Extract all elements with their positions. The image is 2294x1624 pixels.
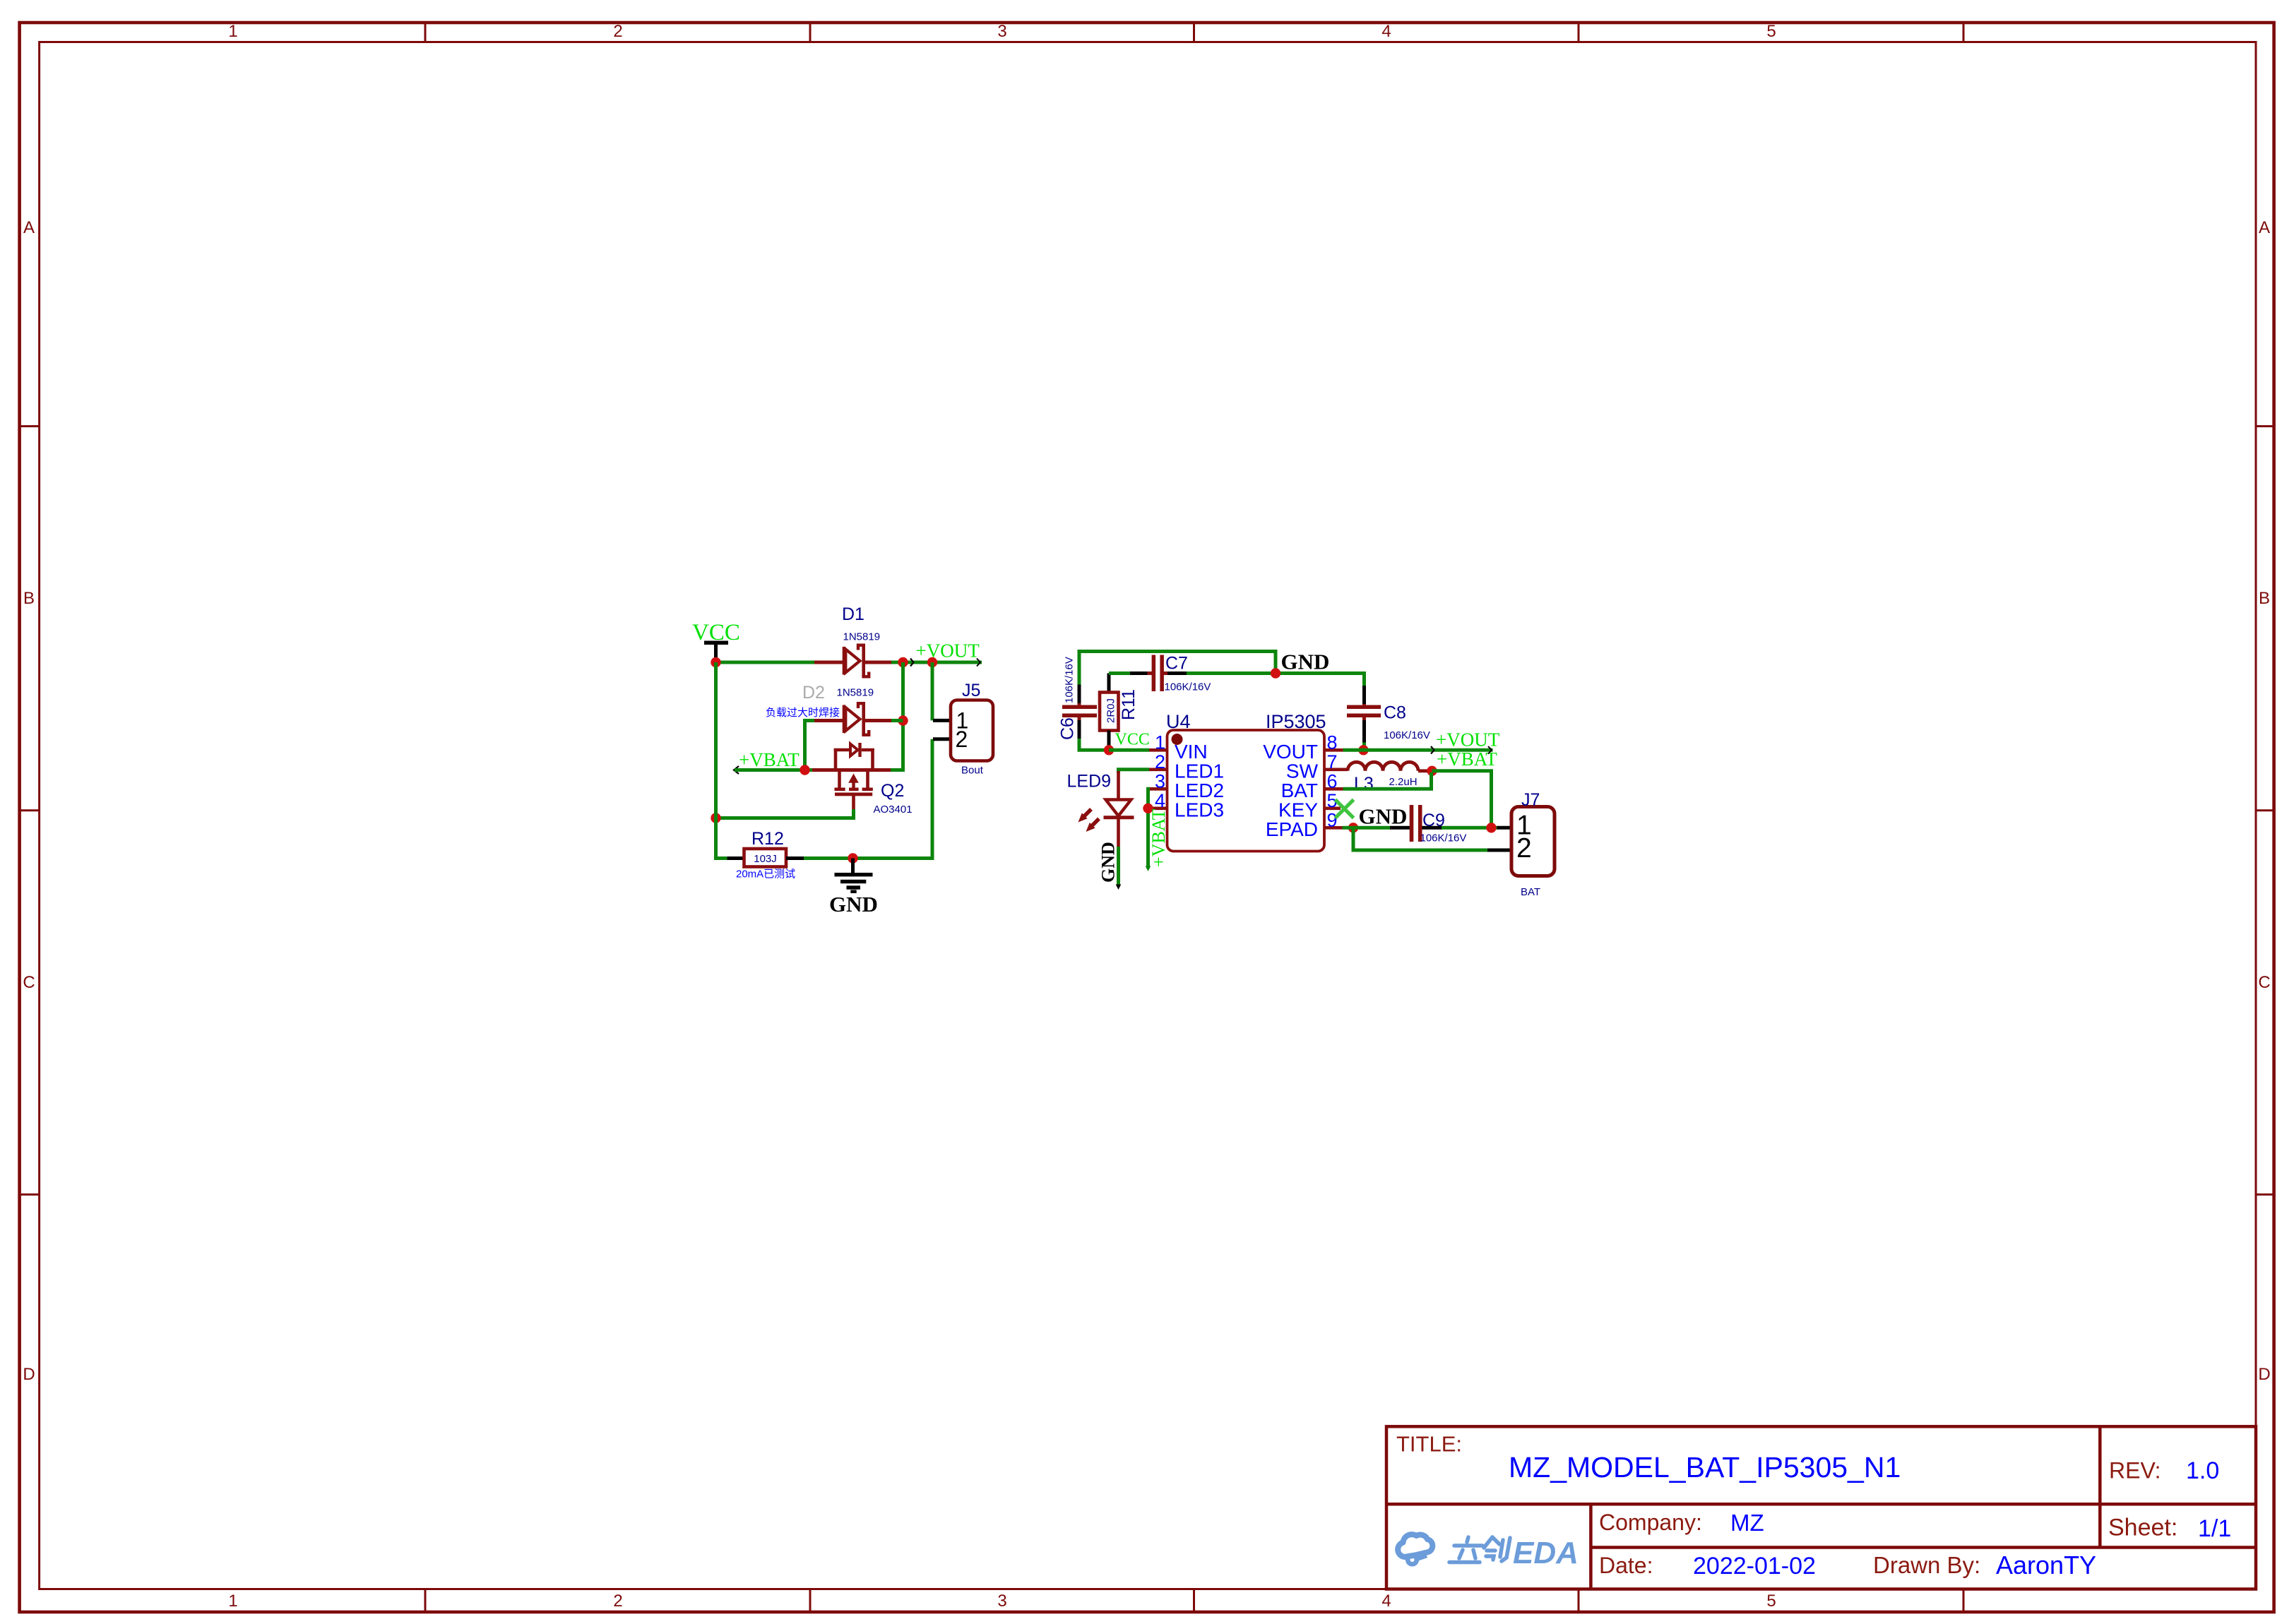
wire C8 bottom lead black <box>1362 720 1366 743</box>
svg-text:U4: U4 <box>1166 711 1191 732</box>
svg-text:MZ: MZ <box>1730 1510 1764 1536</box>
wire C9 left lead black <box>1390 826 1410 830</box>
wire C9 to J7 junction green <box>1442 826 1497 830</box>
ground GND flag (LED9, rotated) <box>1098 842 1122 890</box>
svg-text:IP5305: IP5305 <box>1266 711 1326 732</box>
SCHEMATIC LEFT <box>692 604 993 917</box>
svg-text:5: 5 <box>1766 1592 1776 1611</box>
wire EPAD down to J7 pin2 <box>1353 828 1488 850</box>
svg-text:AaronTY: AaronTY <box>1996 1551 2096 1580</box>
junction D1/J5 <box>898 657 908 667</box>
svg-text:+VBAT: +VBAT <box>1148 808 1169 867</box>
wire end arrow (+VOUT left) <box>977 659 980 667</box>
svg-text:EPAD: EPAD <box>1266 818 1318 840</box>
svg-text:2: 2 <box>613 1592 622 1611</box>
wire Q2 gate down <box>852 809 855 820</box>
wire pin3 corner to +VBAT column <box>1148 789 1151 868</box>
svg-text:GND: GND <box>1281 650 1330 674</box>
wire C7 row left black <box>1130 671 1148 675</box>
svg-text:2R0J: 2R0J <box>1105 698 1117 723</box>
diode D2 <box>814 703 891 735</box>
svg-text:Company:: Company: <box>1599 1510 1702 1535</box>
junction at VCC top <box>711 657 720 667</box>
junction GND <box>848 853 857 863</box>
svg-text:Bout: Bout <box>961 765 984 777</box>
junction GND top <box>1271 668 1280 678</box>
wire C7 row right black <box>1167 671 1187 675</box>
svg-text:R12: R12 <box>751 829 784 849</box>
wire pin2 to LED9 anode <box>1119 770 1150 773</box>
ground GND (left) <box>829 859 878 917</box>
svg-text:106K/16V: 106K/16V <box>1165 681 1211 693</box>
junction J7 pin1 <box>1486 823 1496 832</box>
svg-text:2022-01-02: 2022-01-02 <box>1693 1553 1816 1580</box>
TITLEBLOCK <box>1386 1426 2256 1589</box>
svg-text:BAT: BAT <box>1281 780 1318 801</box>
svg-text:1.0: 1.0 <box>2186 1457 2219 1484</box>
wire C6 bottom lead black <box>1078 720 1081 739</box>
wire Q2 drain to vertical <box>891 768 905 772</box>
svg-text:AO3401: AO3401 <box>874 804 913 816</box>
svg-text:Q2: Q2 <box>881 781 904 801</box>
svg-text:1: 1 <box>228 22 237 41</box>
no-connect X on KEY pin5 <box>1336 800 1354 818</box>
svg-text:J7: J7 <box>1521 790 1540 810</box>
net label +VOUT (left) <box>910 640 980 667</box>
svg-text:8: 8 <box>1327 732 1338 753</box>
svg-text:5: 5 <box>1766 22 1776 41</box>
wire end arrow (+VOUT right) <box>1488 746 1492 754</box>
svg-text:106K/16V: 106K/16V <box>1064 657 1076 703</box>
svg-text:3: 3 <box>1155 771 1165 792</box>
wire +VBAT row <box>735 768 814 772</box>
svg-text:D2: D2 <box>802 683 825 703</box>
svg-text:R11: R11 <box>1119 689 1139 720</box>
svg-text:LED9: LED9 <box>1067 772 1112 792</box>
wire VCC to D1 anode <box>714 661 816 664</box>
svg-text:D: D <box>23 1365 35 1384</box>
svg-text:SW: SW <box>1286 760 1319 782</box>
svg-text:C7: C7 <box>1165 654 1188 674</box>
capacitor C9 <box>1410 805 1422 842</box>
svg-text:+VBAT: +VBAT <box>739 749 800 770</box>
svg-text:BAT: BAT <box>1521 886 1540 898</box>
diode D1 <box>814 645 891 677</box>
svg-text:+VOUT: +VOUT <box>916 640 980 662</box>
svg-text:EDA: EDA <box>1513 1536 1579 1570</box>
wire VCC column to R12 <box>714 856 728 860</box>
svg-text:1N5819: 1N5819 <box>837 687 874 699</box>
wire BAT pin6 to L3 junction <box>1343 772 1432 789</box>
svg-text:C8: C8 <box>1384 703 1406 723</box>
svg-text:C: C <box>2258 973 2270 992</box>
svg-text:D1: D1 <box>842 604 864 624</box>
LED LED9 <box>1078 771 1134 847</box>
svg-text:1: 1 <box>1155 732 1165 753</box>
svg-text:Sheet:: Sheet: <box>2108 1515 2177 1541</box>
svg-text:GND: GND <box>1359 804 1408 829</box>
svg-text:REV:: REV: <box>2109 1457 2161 1483</box>
wire C8 top lead black <box>1362 686 1366 705</box>
svg-text:J5: J5 <box>962 681 980 700</box>
svg-text:20mA已测试: 20mA已测试 <box>736 868 795 880</box>
junction VCC node (C6/R11/pin1) <box>1104 745 1114 755</box>
svg-text:LED1: LED1 <box>1175 760 1224 782</box>
wire VCC column vertical <box>714 662 718 860</box>
resistor R11 <box>1100 674 1119 751</box>
junction gate/VCC column <box>711 813 720 823</box>
svg-text:负载过大时焊接: 负载过大时焊接 <box>766 707 840 719</box>
svg-text:7: 7 <box>1327 751 1338 772</box>
svg-text:B: B <box>2259 589 2270 608</box>
svg-text:2: 2 <box>613 22 622 41</box>
wire vertical D1 junction down to Q2 drain <box>901 662 905 772</box>
svg-text:Date:: Date: <box>1599 1553 1653 1578</box>
svg-text:KEY: KEY <box>1278 799 1318 820</box>
svg-text:GND: GND <box>829 892 878 917</box>
svg-text:+VOUT: +VOUT <box>1436 729 1500 751</box>
svg-text:1: 1 <box>228 1592 237 1611</box>
power flag VCC <box>692 620 740 662</box>
svg-text:6: 6 <box>1327 770 1338 792</box>
wire VCC junction to pin1 <box>1109 748 1149 752</box>
wire black segment C6 top lead <box>1078 685 1081 705</box>
svg-text:LED2: LED2 <box>1175 780 1224 801</box>
svg-text:VIN: VIN <box>1175 741 1208 763</box>
connector J5 <box>933 700 993 761</box>
wire LED9 cathode down (GND) <box>1117 847 1120 885</box>
svg-text:VOUT: VOUT <box>1263 741 1318 763</box>
svg-text:VCC: VCC <box>1115 731 1150 749</box>
junction +VBAT / D2 branch <box>800 765 809 775</box>
svg-text:A: A <box>2259 218 2270 237</box>
svg-text:1N5819: 1N5819 <box>843 631 881 643</box>
net label +VBAT <box>734 749 800 774</box>
svg-text:1/1: 1/1 <box>2198 1515 2231 1542</box>
chip U4 <box>1149 730 1348 852</box>
wire D1 cathode to +VOUT junctions <box>891 661 982 664</box>
svg-text:2: 2 <box>956 727 968 752</box>
svg-text:B: B <box>23 589 35 608</box>
svg-text:2: 2 <box>1516 833 1532 864</box>
logo EasyEDA <box>1398 1534 1579 1570</box>
wire L3 junction to J7 column <box>1432 771 1492 828</box>
junction L3/BAT <box>1427 766 1437 776</box>
net label +VBAT (rotated, below U4) <box>1146 808 1169 871</box>
transistor Q2 <box>812 743 891 809</box>
junction pin8/VOUT <box>1358 745 1368 755</box>
wire pin4 to +VBAT column <box>1148 806 1151 810</box>
svg-text:103J: 103J <box>754 853 777 865</box>
resistor R12 <box>727 849 804 867</box>
junction +VOUT column <box>927 657 937 667</box>
svg-text:Drawn By:: Drawn By: <box>1873 1552 1980 1578</box>
capacitor C7 <box>1148 655 1168 692</box>
svg-text:C: C <box>23 973 35 992</box>
svg-text:4: 4 <box>1381 22 1391 41</box>
junction D2 cathode <box>898 715 908 725</box>
svg-text:GND: GND <box>1098 842 1119 883</box>
svg-text:3: 3 <box>997 1592 1006 1611</box>
svg-text:2.2uH: 2.2uH <box>1389 776 1418 788</box>
svg-text:106K/16V: 106K/16V <box>1384 729 1430 741</box>
svg-text:C6: C6 <box>1058 717 1078 740</box>
junction +VBAT column pin4 <box>1143 804 1153 813</box>
inductor L3 <box>1348 762 1430 771</box>
capacitor C8 <box>1347 704 1381 721</box>
connector J7 <box>1487 807 1555 876</box>
wire gate row to VCC column <box>716 816 856 820</box>
svg-text:2: 2 <box>1155 751 1165 772</box>
wire R12 to GND junction to J5 column <box>804 856 932 860</box>
svg-text:MZ_MODEL_BAT_IP5305_N1: MZ_MODEL_BAT_IP5305_N1 <box>1509 1451 1901 1483</box>
wire C6 bottom to VCC junction <box>1079 739 1110 750</box>
svg-text:4: 4 <box>1381 1592 1391 1611</box>
capacitor C6 <box>1062 703 1097 720</box>
svg-text:3: 3 <box>997 22 1006 41</box>
svg-text:A: A <box>23 218 35 237</box>
wire EPAD to C9 green <box>1343 826 1391 830</box>
wire vertical +VOUT junction down to J5 pin1 <box>931 662 934 720</box>
net label +VOUT (right) <box>1431 729 1500 754</box>
wire D2 anode branch vertical <box>803 719 807 770</box>
svg-text:106K/16V: 106K/16V <box>1420 832 1467 844</box>
wire C9 right lead black <box>1422 826 1443 830</box>
svg-text:TITLE:: TITLE: <box>1396 1432 1462 1457</box>
svg-text:+VBAT: +VBAT <box>1437 748 1497 770</box>
SCHEMATIC RIGHT <box>1058 650 1555 899</box>
wire D2 cathode to junction <box>891 719 903 722</box>
svg-text:9: 9 <box>1327 809 1338 830</box>
wire J5 pin2 column vertical <box>931 739 934 860</box>
svg-text:D: D <box>2258 1365 2270 1384</box>
wire C8 bottom green to pin8 junction <box>1362 743 1366 751</box>
wire C7 row left green <box>1109 671 1131 675</box>
wire D2 anode horizontal <box>803 719 816 722</box>
wire top rail C6 to GND corner <box>1079 652 1276 707</box>
junction EPAD/GND <box>1348 823 1358 832</box>
svg-text:LED3: LED3 <box>1175 799 1224 820</box>
wire C7 row right green to C8 corner <box>1187 674 1365 686</box>
svg-text:4: 4 <box>1155 790 1165 811</box>
wire +VOUT net <box>1343 748 1493 752</box>
